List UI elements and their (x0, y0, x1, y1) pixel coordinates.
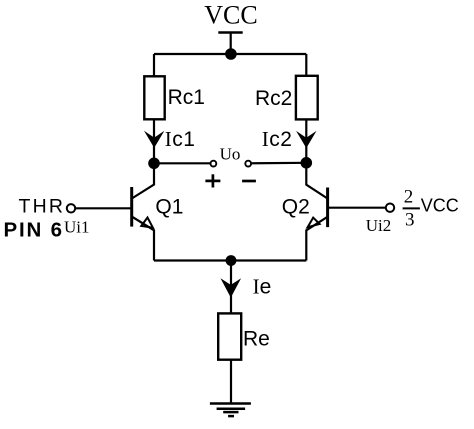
plus sign (Uo polarity) (205, 174, 220, 187)
svg-text:2: 2 (404, 186, 414, 207)
svg-text:Uo: Uo (220, 145, 241, 164)
resistor Re (218, 313, 241, 359)
svg-text:Q1: Q1 (155, 196, 183, 219)
wire right branch top (305, 54, 307, 77)
terminal Uo plus (open circle) (211, 161, 217, 167)
transistor Q2 base bar (326, 188, 329, 228)
wire left branch top (153, 54, 155, 77)
terminal Uo minus (open circle) (245, 161, 251, 167)
wire collector node to Uo+ terminal (154, 162, 211, 164)
svg-text:3: 3 (405, 210, 415, 231)
current arrow Ic2 (296, 131, 316, 148)
svg-text:Rc1: Rc1 (168, 86, 205, 109)
transistor Q1 emitter arrow (open) (141, 218, 153, 228)
node emitter junction dot (226, 255, 237, 266)
svg-text:Ui1: Ui1 (64, 217, 90, 236)
svg-text:Ie: Ie (253, 275, 272, 299)
wire Q2 base to 2/3 VCC terminal (328, 207, 386, 209)
terminal THR (open circle) (67, 204, 75, 212)
VCC supply symbol (218, 33, 242, 55)
wire Uo- terminal to Q2 collector node (251, 162, 306, 165)
svg-text:VCC: VCC (204, 0, 257, 29)
svg-text:Re: Re (243, 327, 270, 350)
node Q1 collector junction dot (148, 158, 160, 170)
wire emitter rail (154, 259, 306, 261)
node VCC junction dot (225, 48, 237, 60)
svg-text:Ui2: Ui2 (366, 216, 392, 235)
wire Rc1 to Q1 collector node (153, 119, 155, 163)
wire Re to ground (230, 360, 232, 403)
svg-text:THR: THR (19, 196, 66, 218)
transistor Q1 collector lead (132, 163, 154, 198)
resistor Rc1 (144, 76, 164, 119)
svg-text:PIN 6: PIN 6 (4, 219, 64, 242)
node Q2 collector junction dot (301, 157, 313, 169)
svg-text:VCC: VCC (421, 196, 459, 216)
terminal 2/3 VCC (open circle) (386, 204, 394, 212)
svg-text:Ic1: Ic1 (165, 127, 196, 151)
svg-text:Q2: Q2 (282, 196, 310, 219)
svg-text:Rc2: Rc2 (255, 87, 292, 110)
fraction bar of 2/3 (403, 207, 420, 209)
transistor Q1 base bar (130, 187, 133, 227)
current arrow Ic1 (144, 131, 164, 148)
wire Rc2 to Q2 collector node (305, 119, 307, 162)
wire emitter node to Re (230, 261, 232, 314)
minus sign (Uo polarity) (242, 180, 256, 183)
transistor Q1 emitter lead (132, 217, 154, 261)
resistor Rc2 (296, 76, 318, 120)
current arrow Ie (221, 278, 242, 297)
ground symbol (210, 404, 251, 417)
transistor Q2 emitter arrow (open) (308, 218, 320, 228)
transistor Q2 emitter lead (306, 217, 327, 261)
wire top rail (154, 53, 306, 55)
transistor Q2 collector lead (306, 163, 327, 199)
wire THR terminal to Q1 base (75, 207, 131, 209)
svg-text:Ic2: Ic2 (262, 127, 293, 151)
